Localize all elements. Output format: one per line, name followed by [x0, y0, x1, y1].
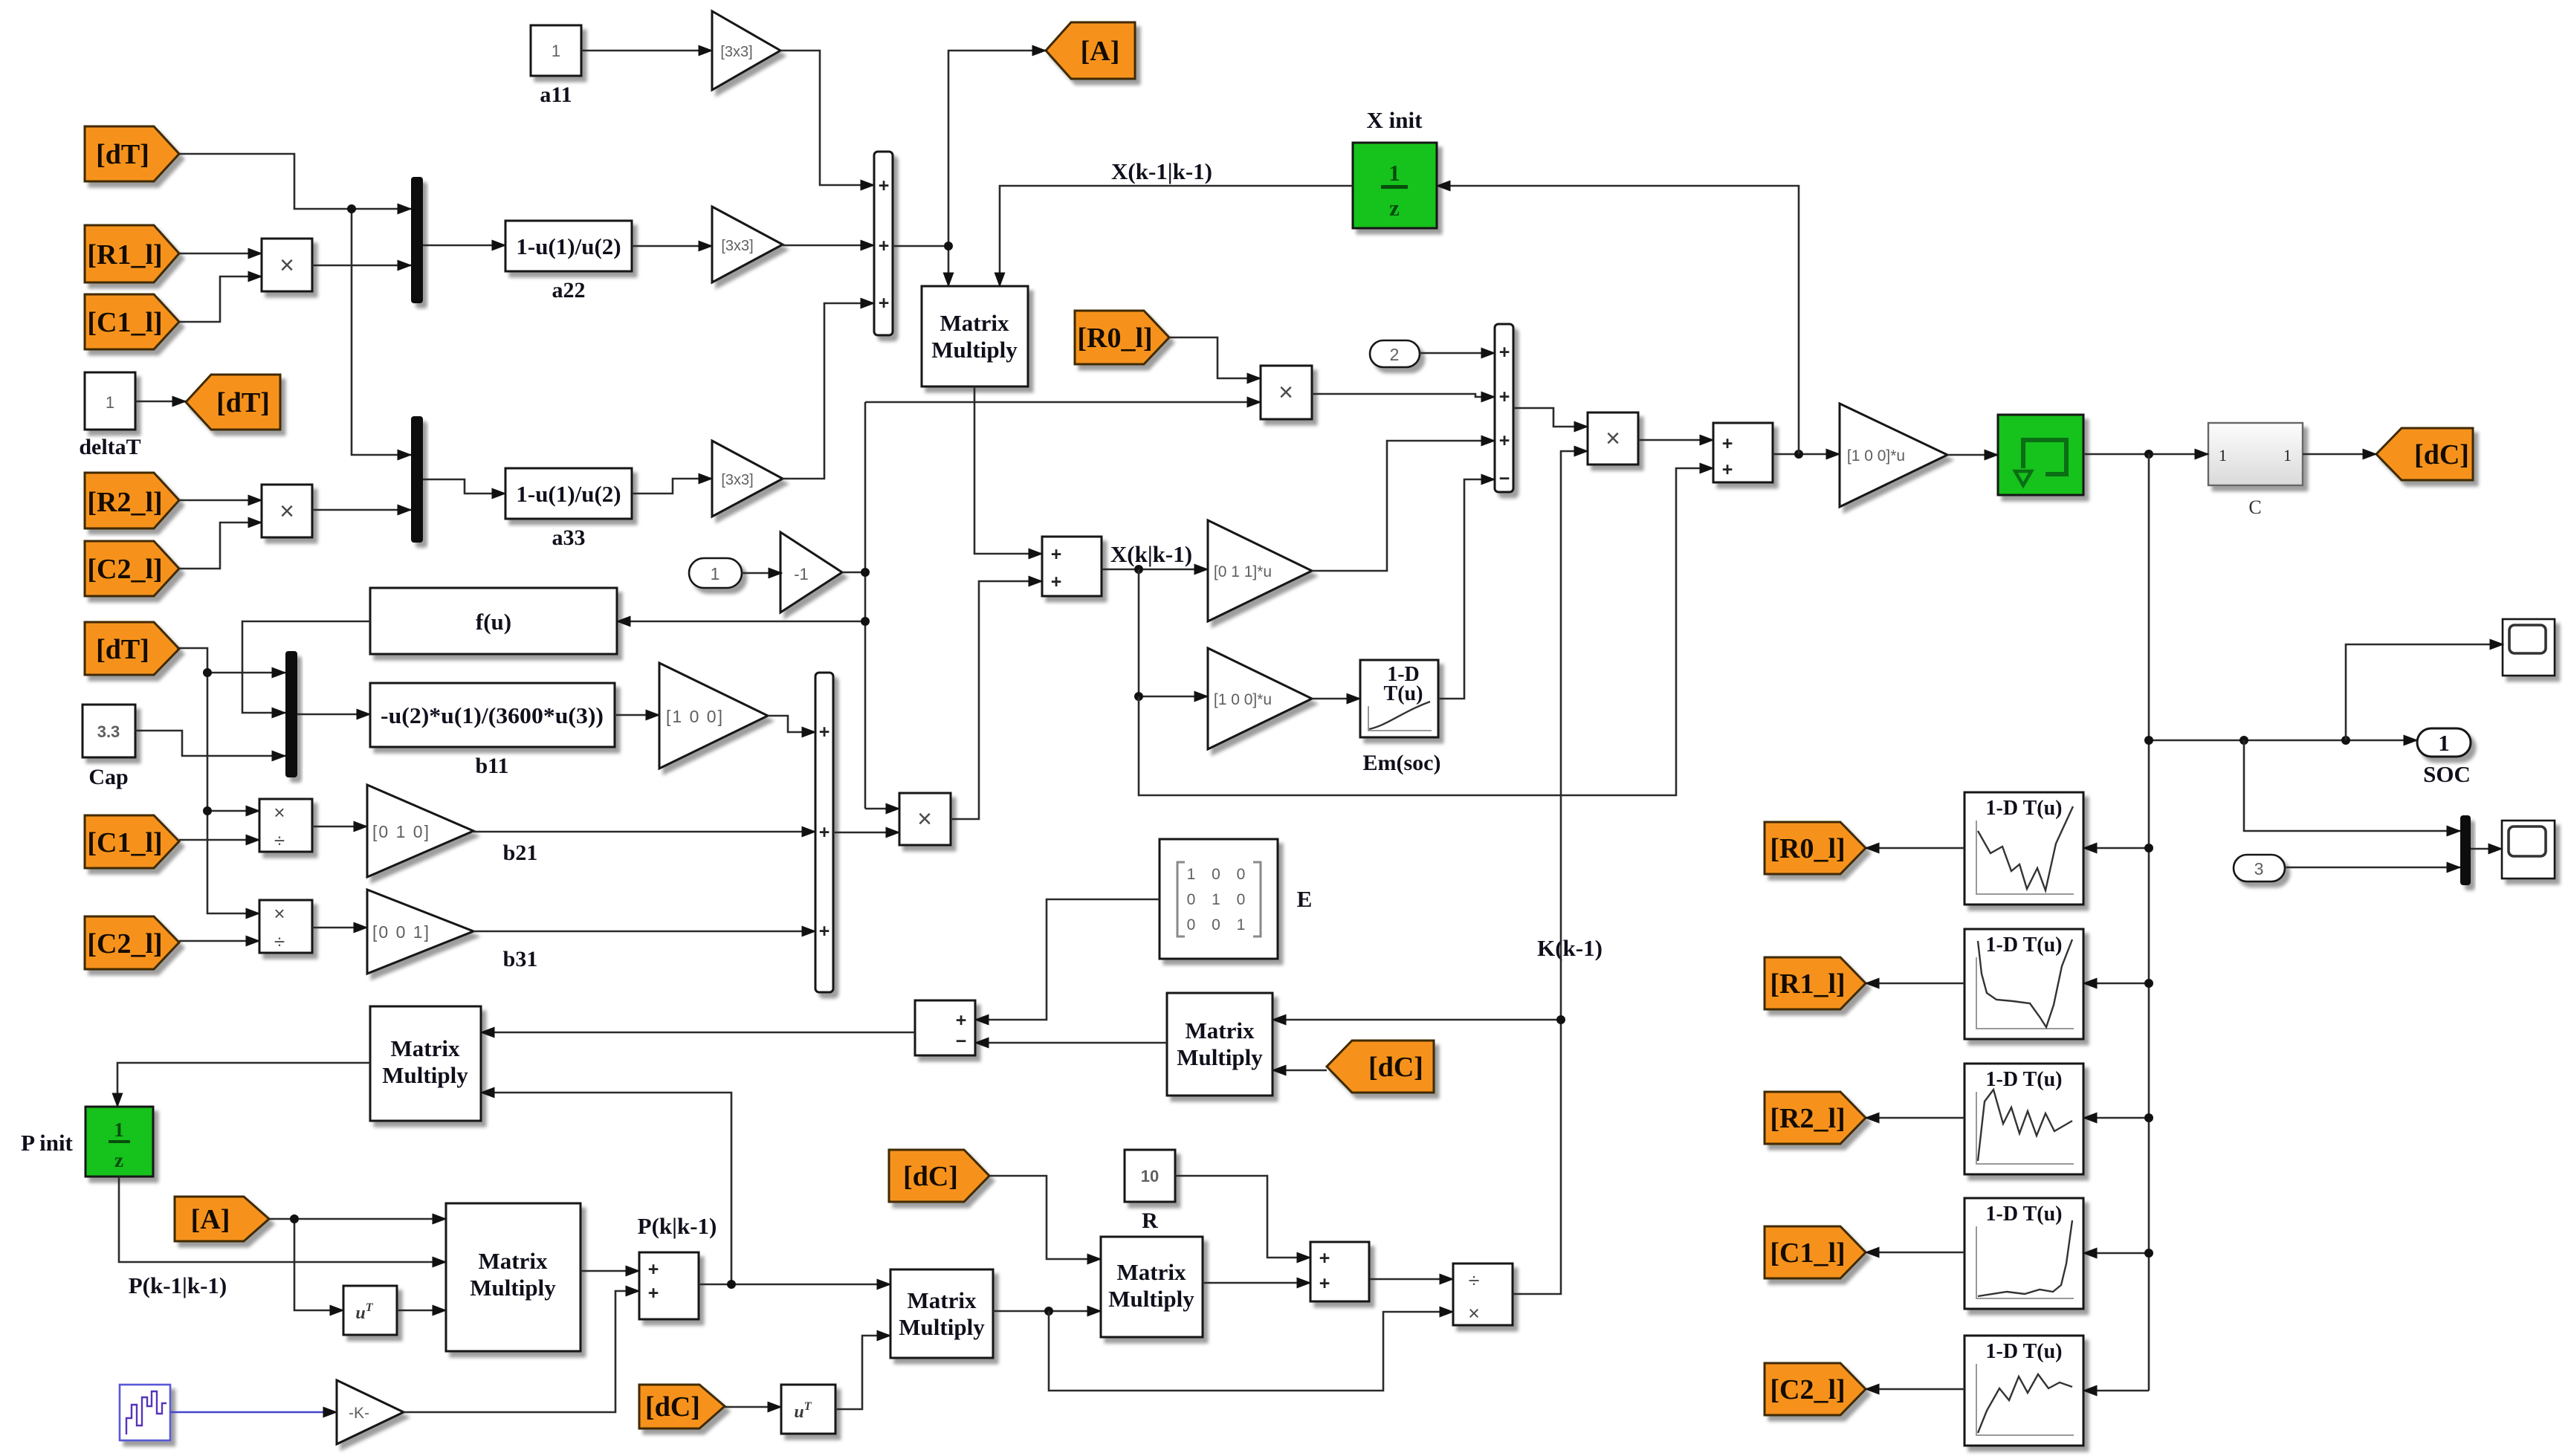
wire X2 to Mux2 in2	[312, 509, 411, 511]
svg-text:[0 1 0]: [0 1 0]	[372, 822, 430, 841]
wire [dT] to Mux1 in1	[179, 154, 411, 209]
svg-text:+: +	[1319, 1273, 1330, 1294]
gain b11row [1 0 0]	[659, 663, 768, 769]
expression block f(u)	[370, 588, 617, 654]
svg-text:[0 0 1]: [0 0 1]	[372, 922, 430, 942]
svg-text:+: +	[1051, 572, 1062, 592]
wire MM1 to Sum3 in1	[974, 386, 1042, 554]
node current junction 2	[861, 617, 870, 626]
svg-text:[1 0 0]*u: [1 0 0]*u	[1214, 691, 1272, 708]
svg-text:+: +	[879, 293, 890, 314]
sum Sum1 (A matrix assembly)	[874, 152, 893, 335]
wire X(k|k-1) to Sum5 in2	[1139, 468, 1713, 795]
wire P(k|k-1) to MMP1 in2	[481, 1093, 731, 1284]
svg-text:1-D T(u): 1-D T(u)	[1986, 1340, 2063, 1363]
svg-text:[C1_l]: [C1_l]	[87, 827, 162, 858]
svg-text:-1: -1	[794, 565, 809, 583]
mux Mux1	[411, 177, 423, 303]
gain b21 [0 1 0]	[367, 785, 537, 877]
wire deltaT to Goto dT	[135, 401, 186, 403]
From tag [R0_l]	[1075, 311, 1169, 364]
svg-text:P(k|k-1): P(k|k-1)	[638, 1213, 717, 1239]
svg-text:+: +	[1499, 430, 1510, 451]
svg-text:+: +	[1051, 544, 1062, 565]
constant R 10	[1125, 1150, 1175, 1233]
wire Em gain to Em lookup	[1312, 698, 1360, 700]
wire Mux1 to a22	[423, 245, 505, 247]
svg-text:b21: b21	[503, 841, 538, 865]
wire [R0_l] to XR0 in1	[1169, 337, 1261, 378]
svg-text:Matrix: Matrix	[391, 1035, 460, 1061]
inport oval 3	[2234, 855, 2285, 881]
svg-text:Multiply: Multiply	[1177, 1044, 1263, 1070]
svg-text:1: 1	[1388, 160, 1400, 186]
wire a11 to G1	[581, 50, 712, 52]
gain -K-	[337, 1380, 404, 1444]
wire MMbtm branch to KDiv in2	[1049, 1311, 1453, 1391]
svg-text:1 0 0: 1 0 0	[1187, 866, 1252, 883]
wire [C2_l] to XD2	[179, 940, 259, 942]
svg-text:E: E	[1297, 886, 1313, 912]
svg-text:Em(soc): Em(soc)	[1363, 751, 1441, 775]
svg-text:×: ×	[1605, 424, 1620, 453]
wire XD1 to b21 gain	[312, 826, 367, 828]
From tag [dC] center (flipped)	[1327, 1041, 1434, 1093]
Matrix Multiply MMdC (C*X) flipped	[1167, 993, 1272, 1096]
svg-text:[A]: [A]	[1081, 36, 1120, 67]
wire to C2 lookup	[2083, 1390, 2149, 1392]
Goto tag [R2_l] right	[1765, 1092, 1866, 1144]
From tag [C1_l] lower	[85, 815, 179, 868]
svg-text:K(k-1): K(k-1)	[1537, 935, 1603, 961]
svg-text:[R0_l]: [R0_l]	[1770, 833, 1845, 864]
svg-text:+: +	[879, 236, 890, 256]
svg-text:P init: P init	[21, 1130, 73, 1156]
svg-text:a33: a33	[552, 525, 586, 550]
wire [dC] mid to MMmid in1	[989, 1176, 1101, 1259]
node dT junction	[347, 204, 356, 213]
wire C1 lookup to Goto	[1866, 1252, 1964, 1254]
svg-text:+: +	[819, 822, 830, 843]
wire oval3 to MuxScope in2	[2285, 867, 2460, 869]
node Sum5 out junction	[1794, 450, 1803, 459]
svg-text:X init: X init	[1367, 107, 1423, 133]
inport oval 1	[689, 558, 742, 588]
subsystem C	[2208, 423, 2303, 518]
wire KDiv out up K(k-1) to X2K in2	[1513, 451, 1588, 1294]
svg-text:×: ×	[1278, 378, 1293, 407]
wire to R0 lookup	[2083, 847, 2149, 850]
svg-text:[dT]: [dT]	[216, 387, 270, 418]
constant matrix E	[1160, 839, 1312, 959]
svg-text:[3x3]: [3x3]	[721, 238, 753, 254]
sum Sum5 (X update)	[1713, 423, 1773, 482]
svg-text:1-u(1)/u(2): 1-u(1)/u(2)	[516, 481, 621, 507]
svg-text:0 0 1: 0 0 1	[1187, 916, 1252, 934]
wire dT mid branch to XD1	[207, 673, 259, 811]
wire uT1 to MMP2 in3	[397, 1310, 446, 1312]
wire [C2_l] to X2	[179, 522, 262, 569]
wire MMP2 to SumP in1	[581, 1270, 639, 1272]
constant a11	[531, 25, 581, 107]
svg-text:z: z	[1389, 195, 1400, 221]
wire G3 to Sum1 in3	[783, 303, 874, 479]
svg-text:Matrix: Matrix	[908, 1287, 977, 1313]
svg-text:[R0_l]: [R0_l]	[1077, 323, 1152, 354]
wire SumR to KDiv in1	[1370, 1278, 1453, 1281]
wire R to SumR in1	[1175, 1176, 1310, 1258]
svg-text:1: 1	[2283, 446, 2292, 465]
svg-text:P(k-1|k-1): P(k-1|k-1)	[129, 1272, 227, 1298]
svg-text:1-D T(u): 1-D T(u)	[1986, 934, 2063, 957]
svg-text:T(u): T(u)	[1384, 682, 1423, 705]
wire C to Goto [dC]	[2303, 453, 2376, 456]
Goto tag [C1_l] right	[1765, 1226, 1866, 1278]
product X1 (R1*C1)	[262, 239, 312, 291]
transpose uT2	[781, 1385, 835, 1434]
svg-text:b11: b11	[475, 754, 508, 778]
lookup table R0 1-D T(u)	[1964, 792, 2083, 905]
svg-text:+: +	[1499, 386, 1510, 407]
assignment block (green loop)	[1998, 415, 2083, 495]
sum Sum3 (X(k|k-1))	[1042, 537, 1102, 596]
svg-text:-K-: -K-	[349, 1405, 369, 1422]
svg-text:+: +	[648, 1259, 659, 1280]
svg-text:[A]: [A]	[191, 1204, 230, 1235]
svg-text:[R2_l]: [R2_l]	[87, 487, 162, 518]
Goto tag [R0_l] right	[1765, 822, 1866, 874]
unit delay X init (1/z)	[1353, 107, 1437, 228]
lookup table R2 1-D T(u)	[1964, 1064, 2083, 1174]
svg-text:+: +	[1722, 459, 1733, 480]
outport oval SOC	[2417, 728, 2471, 787]
gain [1 0 0]*u output row	[1840, 404, 1947, 507]
wire dT branch to Mux2 in1	[352, 209, 411, 455]
product X2 (R2*C2)	[262, 485, 312, 537]
svg-text:+: +	[648, 1283, 659, 1304]
svg-text:f(u): f(u)	[476, 609, 511, 635]
sum Sum4 (voltage terms)	[1495, 324, 1513, 492]
wire branch to Scope1	[2346, 644, 2503, 740]
wire Em lookup to Sum4 minus	[1438, 479, 1495, 699]
wire a22 to G2	[632, 245, 712, 247]
lookup table R1 1-D T(u)	[1964, 929, 2083, 1039]
node A lower junction	[290, 1214, 299, 1223]
wire K branch to MMdC in1	[1272, 1019, 1561, 1021]
wire [C1_l] to X1	[179, 276, 262, 322]
svg-text:1: 1	[114, 1119, 124, 1141]
svg-text:×: ×	[917, 805, 932, 833]
svg-text:×: ×	[279, 497, 294, 525]
wire X2K to Sum5 in1	[1638, 439, 1713, 441]
node SOC junctions	[2144, 736, 2153, 745]
svg-text:a22: a22	[552, 278, 586, 302]
wire Cap to Mux3 in3	[135, 731, 285, 756]
node K junction	[1556, 1015, 1565, 1024]
wire to R1 lookup	[2083, 983, 2149, 985]
Matrix Multiply MMP1 (P update) flipped	[370, 1006, 481, 1121]
wire gain to assignment block	[1947, 454, 1998, 456]
wire G2 to Sum1 in2	[783, 245, 874, 247]
wire [C1_l] to XD1	[179, 839, 259, 841]
node P(k|k-1) junction	[727, 1280, 736, 1289]
svg-text:b31: b31	[503, 947, 538, 971]
band-limited white noise block	[120, 1385, 170, 1440]
wire XB to Sum3 in2	[951, 581, 1042, 819]
wire current net to f(u) input	[617, 621, 865, 623]
gain -1	[780, 532, 842, 612]
svg-text:-u(2)*u(1)/(3600*u(3)): -u(2)*u(1)/(3600*u(3))	[381, 702, 604, 728]
wire a33 to G3	[632, 479, 712, 494]
svg-text:Cap: Cap	[88, 765, 128, 789]
wire oval2 to Sum4 in1	[1420, 352, 1495, 355]
svg-text:Multiply: Multiply	[1108, 1286, 1194, 1312]
Matrix Multiply MM1 (A*X)	[922, 286, 1028, 386]
expression block b11	[370, 683, 615, 778]
wire X(k|k-1) down to Em gain	[1139, 569, 1208, 696]
wire SOC column vertical	[2148, 454, 2150, 1391]
wire -1 gain to current net	[842, 402, 865, 809]
wire A junction up to Goto [A]	[948, 51, 1046, 246]
wire R2 lookup to Goto	[1866, 1117, 1964, 1119]
wire [dC] bottom to uT2	[725, 1406, 781, 1408]
Goto tag [A]	[1046, 22, 1135, 79]
svg-text:+: +	[819, 921, 830, 942]
wire Sum5 to gain [1 0 0]*u	[1773, 453, 1840, 456]
node MMbtm out junction	[1044, 1307, 1053, 1316]
wire SumP to MMbtm in1	[699, 1284, 890, 1286]
svg-text:−: −	[1499, 468, 1510, 489]
wire E to SumInnov plus	[975, 899, 1160, 1020]
inport oval 2	[1370, 340, 1420, 367]
svg-text:Matrix: Matrix	[940, 310, 1009, 336]
From tag [dC] bottom	[639, 1385, 725, 1429]
svg-text:[C1_l]: [C1_l]	[1770, 1237, 1845, 1269]
svg-text:×: ×	[1468, 1302, 1480, 1324]
wire MuxScope to Scope2	[2471, 848, 2502, 850]
wire X1 to Mux1 in2	[312, 265, 411, 267]
wire uT2 to MMbtm in2	[835, 1336, 890, 1409]
wire b21 gain to SumB in2	[473, 831, 815, 833]
Matrix Multiply MMP2 (A*P*A')	[446, 1203, 581, 1351]
svg-text:1: 1	[106, 393, 114, 412]
svg-text:+: +	[956, 1010, 967, 1031]
node dT mid junction 2	[203, 806, 212, 815]
svg-text:+: +	[819, 722, 830, 742]
svg-text:2: 2	[1390, 345, 1400, 364]
From tag [R2_l]	[85, 473, 179, 528]
svg-text:[0 1 1]*u: [0 1 1]*u	[1214, 563, 1272, 580]
wire dT mid branch to XD2	[207, 811, 259, 913]
svg-text:÷: ÷	[274, 829, 285, 852]
svg-text:Multiply: Multiply	[899, 1314, 985, 1340]
unit delay P init (1/z)	[21, 1107, 153, 1177]
product divide KDiv	[1453, 1264, 1513, 1325]
Goto tag [C2_l] right	[1765, 1363, 1866, 1415]
wire MMdC to SumInnov minus	[975, 1042, 1167, 1044]
svg-text:1: 1	[2219, 446, 2227, 465]
sum SumR (S = CPC'+R)	[1310, 1242, 1369, 1301]
svg-text:0 1 0: 0 1 0	[1187, 891, 1252, 908]
svg-text:÷: ÷	[1469, 1269, 1480, 1292]
svg-text:1: 1	[2438, 730, 2450, 756]
svg-text:×: ×	[274, 902, 285, 925]
svg-text:[1 0 0]*u: [1 0 0]*u	[1847, 447, 1905, 465]
constant Cap 3.3	[83, 705, 135, 789]
svg-text:[dC]: [dC]	[903, 1161, 958, 1192]
From tag [dT] mid-left	[85, 622, 179, 675]
svg-text:[C2_l]: [C2_l]	[87, 554, 162, 585]
svg-text:[1 0 0]: [1 0 0]	[666, 707, 724, 726]
svg-text:1-u(1)/u(2): 1-u(1)/u(2)	[516, 233, 621, 259]
wire R0 lookup to Goto	[1866, 847, 1964, 850]
svg-text:[dT]: [dT]	[96, 139, 149, 170]
wire X init out to MM1 in2 (X(k-1|k-1))	[1000, 186, 1353, 286]
gain [1 0 0]*u Em row	[1208, 648, 1312, 749]
svg-text:[dC]: [dC]	[2414, 439, 2469, 470]
svg-text:3: 3	[2254, 859, 2264, 879]
wire b11 gain to SumB in1	[768, 716, 815, 732]
product XB (B*u)	[899, 793, 951, 845]
svg-text:[3x3]: [3x3]	[721, 472, 753, 488]
wire A branch to uT1	[294, 1219, 343, 1310]
From tag [C2_l] lower	[85, 916, 179, 969]
wire [R1_l] to X1	[179, 253, 262, 255]
svg-text:deltaT: deltaT	[79, 435, 140, 459]
wire Sum4 to X2K in1	[1513, 408, 1588, 427]
svg-text:[C2_l]: [C2_l]	[87, 928, 162, 960]
svg-text:×: ×	[274, 801, 285, 824]
mux Mux2	[411, 416, 423, 543]
svg-text:Matrix: Matrix	[1186, 1017, 1255, 1044]
svg-text:+: +	[1319, 1248, 1330, 1269]
node A junction	[944, 242, 953, 250]
product X2K (K*innov)	[1588, 412, 1638, 465]
svg-text:a11: a11	[540, 82, 572, 107]
svg-text:×: ×	[279, 251, 294, 279]
wire gain [0 1 1]*u to Sum4 in3	[1312, 441, 1495, 571]
wire Sum1 to A junction	[893, 245, 948, 247]
lookup table Em(soc) 1-D T(u)	[1360, 660, 1440, 775]
wire MMP1 to P init	[117, 1063, 370, 1107]
wire XR0 to Sum4 in2	[1312, 394, 1495, 397]
svg-text:Multiply: Multiply	[470, 1275, 556, 1301]
expression block a33 1-u(1)/u(2)	[505, 468, 632, 550]
wire assignment to C	[2083, 453, 2208, 456]
From tag [dT] top-left	[85, 126, 179, 181]
node dT mid junction 1	[203, 668, 212, 677]
gain [3x3] G3	[712, 441, 783, 517]
svg-text:1-D T(u): 1-D T(u)	[1986, 1203, 2063, 1226]
product XR0 (R0*I)	[1261, 366, 1312, 419]
From tag [A] lower	[175, 1197, 269, 1241]
Goto tag [dT]	[186, 375, 280, 430]
wire Mux2 to a33	[423, 479, 505, 494]
Goto tag [dC] top-right	[2376, 428, 2473, 480]
svg-text:3.3: 3.3	[97, 722, 120, 741]
sum SumB (B matrix assembly)	[815, 673, 833, 992]
mux MuxScope	[2460, 815, 2471, 885]
wire MMmid to SumR in2	[1203, 1282, 1310, 1284]
constant deltaT	[79, 372, 140, 459]
lookup table C2 1-D T(u)	[1964, 1336, 2083, 1446]
wire A junction down to MM1 in1	[948, 246, 950, 286]
gain [3x3] G2	[712, 207, 783, 282]
product divide XD2	[259, 900, 312, 953]
svg-text:[R2_l]: [R2_l]	[1770, 1103, 1845, 1134]
svg-text:+: +	[1499, 342, 1510, 363]
wire to R2 lookup	[2083, 1117, 2149, 1119]
wire to C1 lookup	[2083, 1252, 2149, 1255]
wire noise to -K-	[170, 1411, 337, 1414]
wire b31 gain to SumB in3	[473, 931, 815, 933]
wire [A] to MMP2 in1	[269, 1218, 446, 1220]
sum SumP	[639, 1252, 699, 1319]
svg-text:[C2_l]: [C2_l]	[1770, 1374, 1845, 1405]
svg-text:C: C	[2248, 496, 2261, 518]
svg-text:+: +	[879, 175, 890, 196]
wire feedback to X init	[1437, 186, 1799, 454]
svg-text:1: 1	[552, 42, 560, 60]
wire Sum3 to gain [0 1 1]*u	[1102, 569, 1208, 571]
svg-text:[dT]: [dT]	[96, 634, 149, 665]
wire [dC] flipped to MMdC in2	[1272, 1070, 1327, 1072]
From tag [R1_l]	[85, 225, 179, 282]
svg-text:[dC]: [dC]	[1368, 1052, 1423, 1083]
svg-text:Multiply: Multiply	[931, 337, 1018, 363]
wire SOC row to outport	[2149, 740, 2417, 742]
svg-text:1-D T(u): 1-D T(u)	[1986, 797, 2063, 820]
svg-text:10: 10	[1141, 1167, 1159, 1185]
svg-text:X(k|k-1): X(k|k-1)	[1110, 541, 1192, 567]
svg-text:[dC]: [dC]	[645, 1391, 700, 1423]
node current junction 1	[861, 568, 870, 577]
svg-text:1-D T(u): 1-D T(u)	[1986, 1068, 2063, 1091]
wire current net to XR0 in2	[865, 401, 1261, 404]
gain b31 [0 0 1]	[367, 890, 537, 974]
wire G1 to Sum1 in1	[780, 51, 874, 185]
wire b11 to b11 gain	[615, 714, 659, 716]
scope Scope2	[2502, 821, 2555, 879]
wire -K- to SumP in2	[404, 1291, 639, 1412]
svg-text:Matrix: Matrix	[1117, 1259, 1186, 1285]
svg-text:[C1_l]: [C1_l]	[87, 307, 162, 338]
svg-text:−: −	[956, 1031, 967, 1052]
Matrix Multiply MMbtm (P*C')	[890, 1269, 993, 1358]
node X(k|k-1) junction	[1134, 565, 1143, 574]
wire C2 lookup to Goto	[1866, 1388, 1964, 1391]
node X(k|k-1) junction 2	[1134, 692, 1143, 701]
wire oval1 to gain -1	[742, 572, 782, 575]
svg-text:[3x3]: [3x3]	[720, 44, 752, 60]
From tag [dC] mid-low	[889, 1150, 989, 1202]
From tag [C1_l]	[85, 294, 179, 349]
From tag [C2_l]	[85, 541, 179, 596]
transpose uT1	[343, 1286, 397, 1335]
wire MMbtm to MMmid in2	[993, 1310, 1101, 1313]
wire f(u) out to Mux3 in2	[242, 621, 370, 713]
scope Scope1	[2503, 619, 2555, 676]
svg-text:Multiply: Multiply	[382, 1062, 468, 1088]
svg-text:Matrix: Matrix	[479, 1248, 548, 1274]
svg-text:R: R	[1142, 1209, 1158, 1233]
svg-text:z: z	[114, 1149, 123, 1171]
wire [R2_l] to X2	[179, 499, 262, 502]
svg-text:1: 1	[711, 564, 720, 583]
wire [dT] mid to Mux3 in1	[177, 648, 285, 673]
wire branch to MuxScope in1	[2244, 740, 2460, 831]
wire R1 lookup to Goto	[1866, 983, 1964, 985]
